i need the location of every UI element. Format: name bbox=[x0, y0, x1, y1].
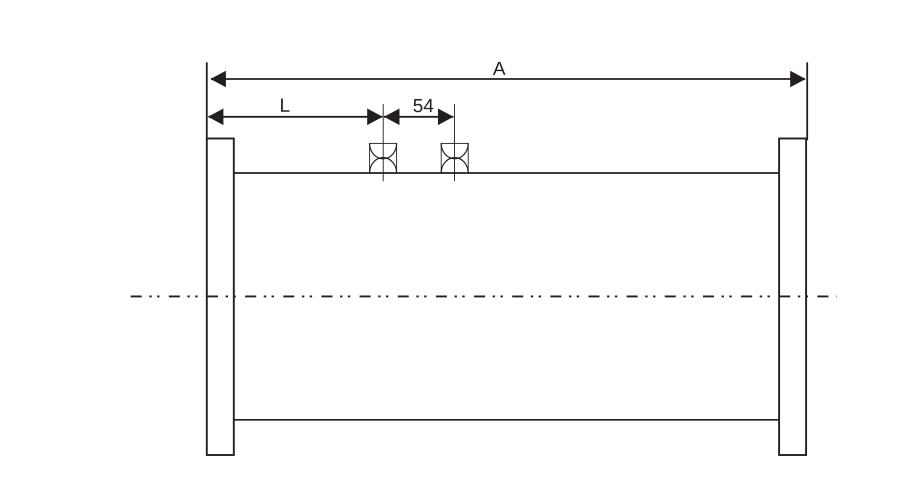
dimension 54 label bbox=[413, 99, 433, 112]
dimension L left arrowhead bbox=[208, 109, 224, 126]
dimension L label bbox=[281, 99, 289, 112]
dimension 54 left arrowhead bbox=[384, 109, 400, 126]
nozzle N2 centerline bbox=[454, 104, 456, 181]
dimension 54 line bbox=[384, 116, 454, 118]
left flange bbox=[207, 139, 234, 456]
extension line left bbox=[206, 62, 208, 138]
extension line right bbox=[806, 62, 808, 140]
dimension L line bbox=[209, 116, 383, 118]
shell bottom line bbox=[234, 419, 779, 421]
nozzle N1 centerline bbox=[382, 104, 384, 181]
shell top line bbox=[234, 172, 779, 174]
centerline (horizontal dash-dot-dot axis) bbox=[131, 295, 837, 297]
dimension 54 right arrowhead bbox=[438, 109, 454, 126]
dimension A right arrowhead bbox=[790, 71, 806, 88]
dimension L right arrowhead bbox=[367, 109, 383, 126]
nozzle N2 body bbox=[441, 143, 468, 173]
dimension A label bbox=[493, 62, 506, 75]
dimension A line bbox=[211, 78, 805, 80]
right flange bbox=[779, 139, 806, 456]
nozzle N1 body bbox=[370, 143, 397, 173]
dimension A left arrowhead bbox=[210, 71, 226, 88]
